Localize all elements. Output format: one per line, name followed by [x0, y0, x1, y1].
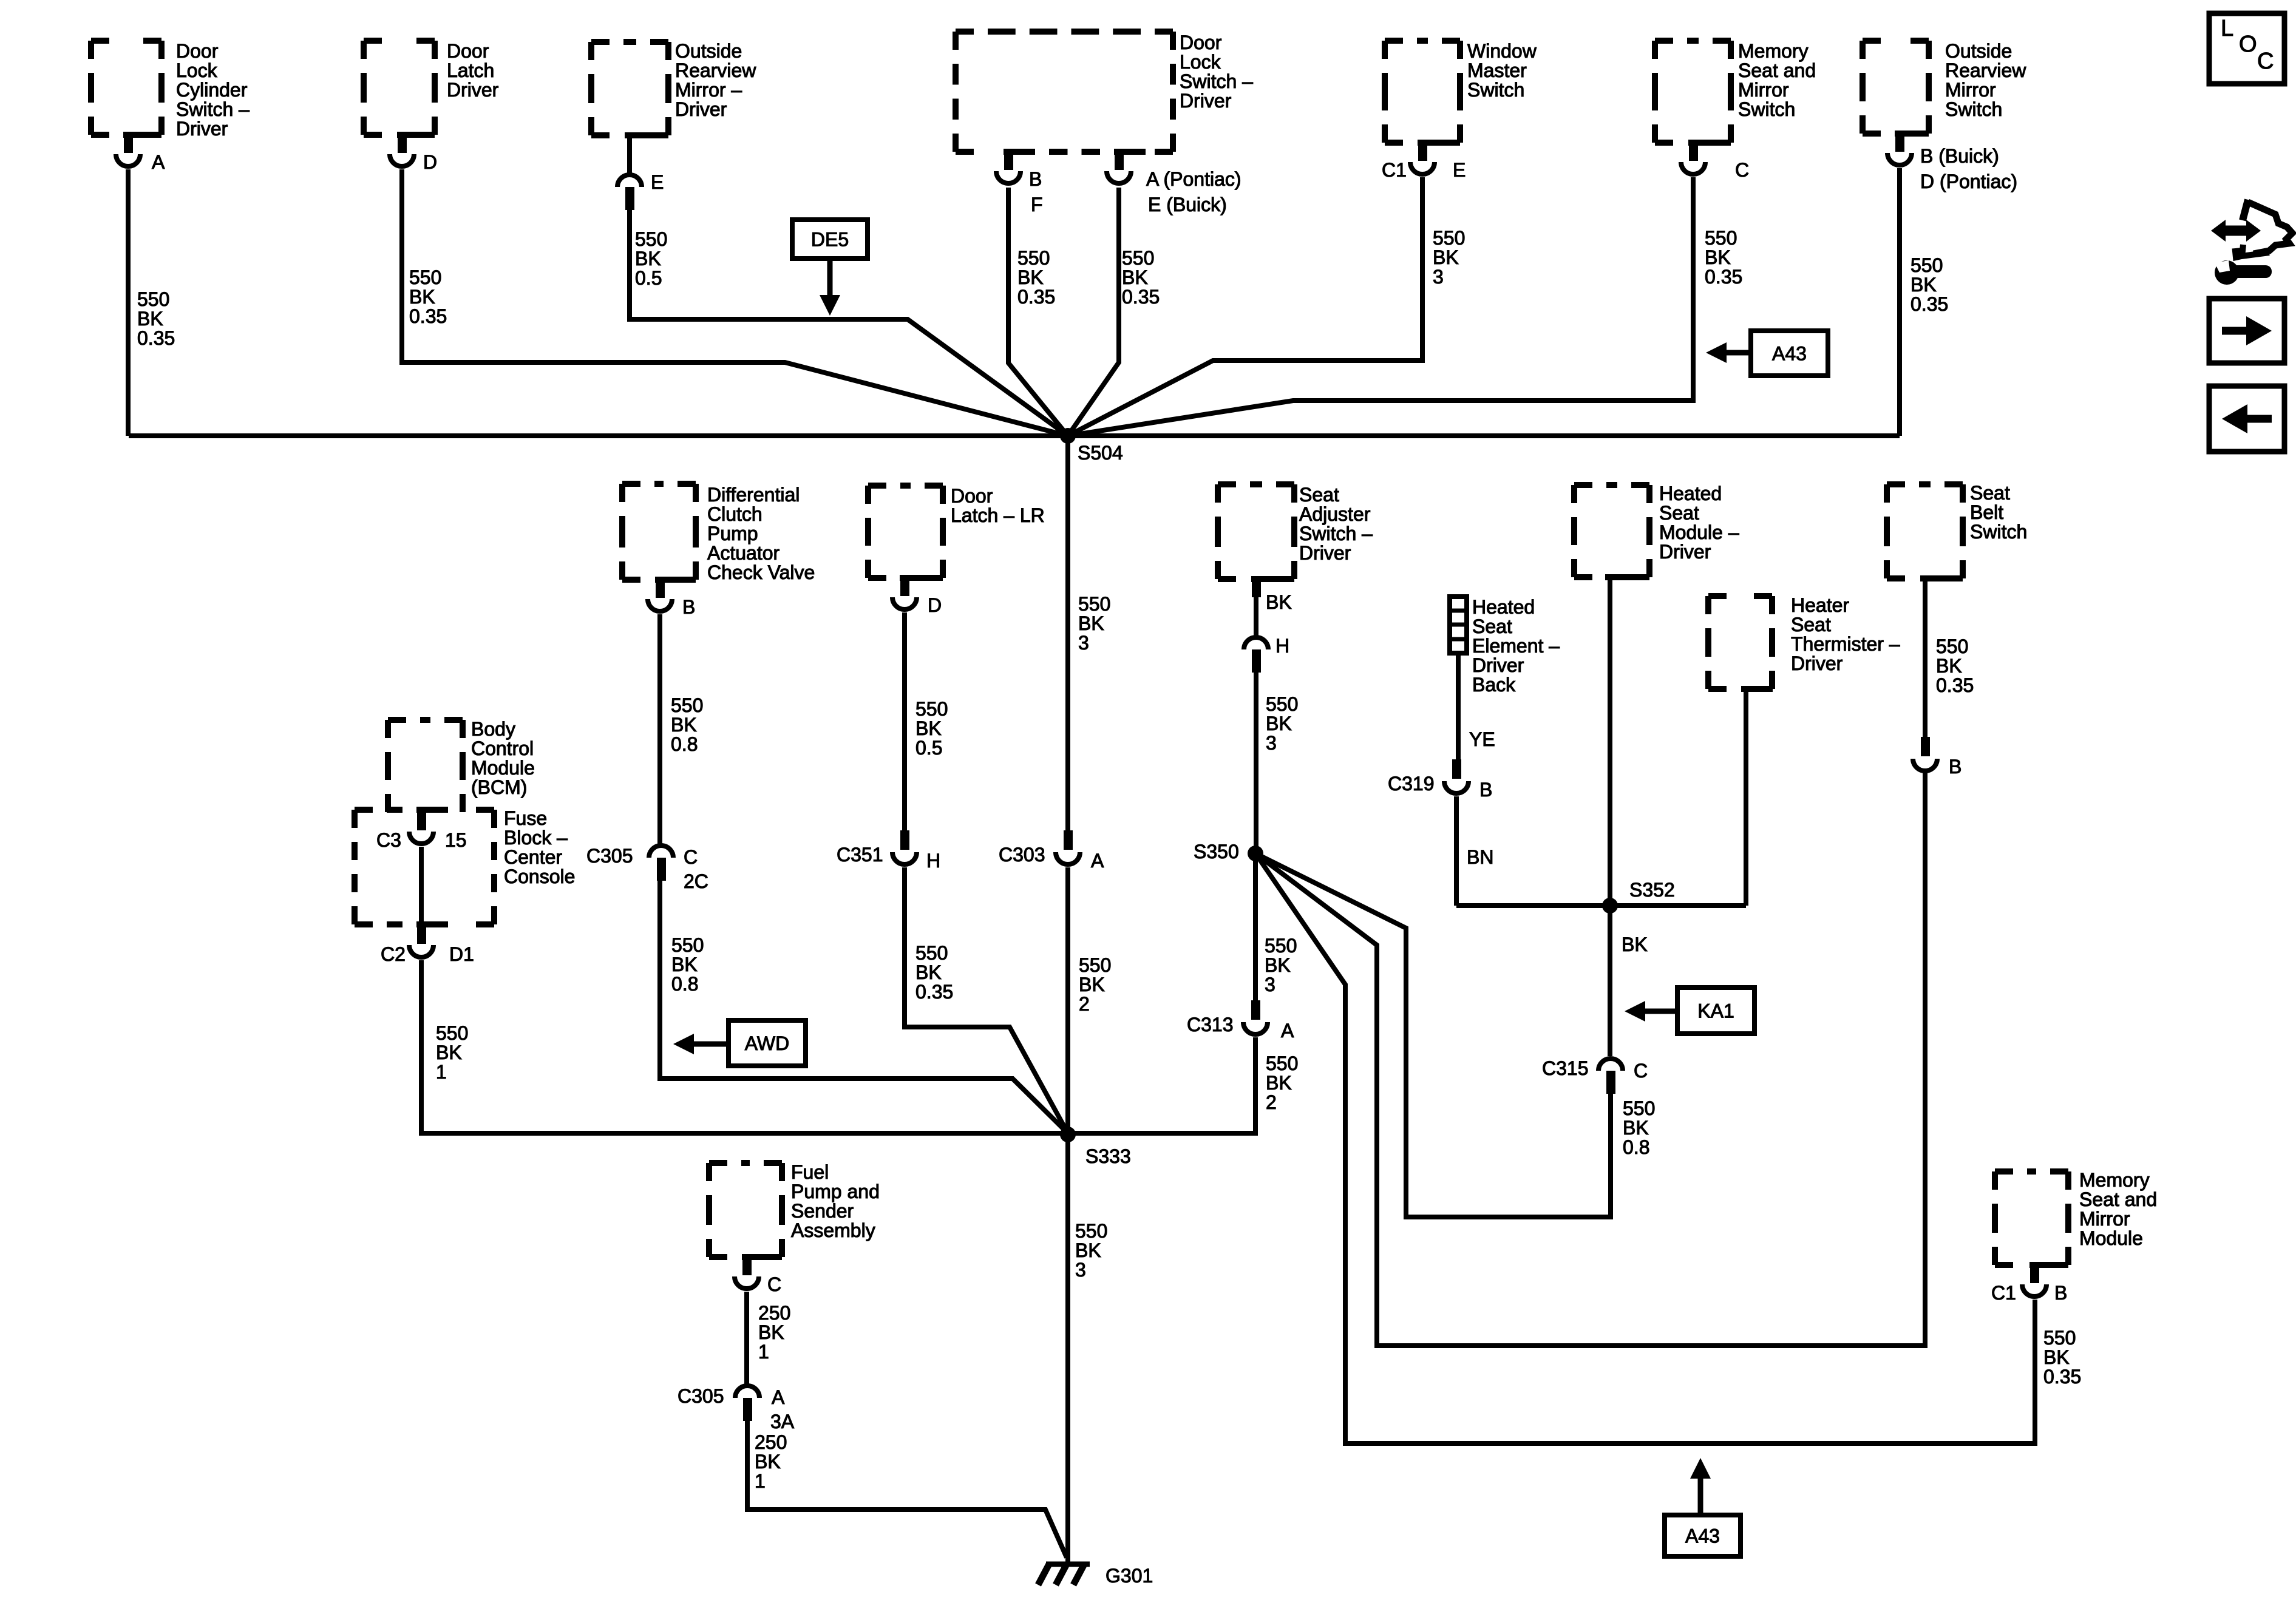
wire: S352 to C315 — [1608, 906, 1612, 1056]
svg-text:C: C — [2257, 49, 2274, 74]
svg-text:1: 1 — [436, 1061, 447, 1083]
wire: door latch LR D to C351 — [902, 612, 907, 830]
svg-text:Outside: Outside — [1945, 40, 2012, 62]
svg-text:550: 550 — [671, 934, 704, 956]
svg-text:Driver: Driver — [675, 98, 727, 120]
svg-text:Outside: Outside — [675, 40, 742, 62]
svg-text:E (Buick): E (Buick) — [1148, 194, 1227, 215]
svg-text:A: A — [1091, 850, 1104, 872]
svg-text:3: 3 — [1075, 1259, 1086, 1281]
svg-text:A: A — [152, 151, 165, 173]
component box: Heated Seat Module - Driver — [1574, 485, 1649, 577]
junction S333 — [1060, 1127, 1076, 1142]
svg-text:Driver: Driver — [1791, 653, 1843, 674]
svg-text:2: 2 — [1266, 1091, 1277, 1113]
svg-text:BK: BK — [671, 954, 698, 975]
svg-text:D: D — [928, 594, 942, 616]
wire: seat adjuster to H connector — [1254, 597, 1258, 636]
connector B inline seat belt switch — [1921, 737, 1930, 756]
svg-text:15: 15 — [445, 829, 467, 851]
wire: diff clutch B to C305 — [657, 614, 662, 844]
svg-text:Assembly: Assembly — [791, 1219, 875, 1241]
svg-text:Lock: Lock — [176, 59, 218, 81]
svg-text:C: C — [1735, 159, 1749, 181]
svg-text:3: 3 — [1266, 732, 1277, 754]
svg-text:BK: BK — [1433, 246, 1459, 268]
connector C303 A inline — [1064, 830, 1073, 850]
component box: Window Master Switch — [1385, 41, 1460, 143]
component box: Fuse Block - Center Console — [355, 810, 494, 924]
svg-text:3: 3 — [1078, 632, 1089, 654]
reference tag A43 (top) — [1751, 331, 1828, 376]
left arrow legend box — [2209, 386, 2284, 452]
connector C3 15 BCM to fuse block — [417, 811, 426, 830]
svg-text:YE: YE — [1469, 728, 1495, 750]
svg-text:Driver: Driver — [176, 118, 228, 140]
svg-text:3: 3 — [1433, 266, 1444, 288]
svg-text:550: 550 — [436, 1022, 468, 1044]
svg-text:Mirror: Mirror — [2079, 1208, 2130, 1230]
wire: outside rearview mirror switch to bus — [1897, 168, 1902, 436]
svg-text:Pump and: Pump and — [791, 1181, 880, 1202]
svg-text:Rearview: Rearview — [1945, 59, 2026, 81]
svg-text:C: C — [684, 846, 698, 868]
svg-text:Mirror: Mirror — [1945, 79, 1996, 101]
wire: thermister to S352 — [1744, 689, 1748, 906]
svg-text:Switch: Switch — [1467, 79, 1524, 101]
svg-text:Door: Door — [1180, 32, 1222, 53]
svg-text:550: 550 — [137, 288, 169, 310]
svg-text:BK: BK — [1936, 655, 1962, 677]
svg-text:Master: Master — [1467, 59, 1527, 81]
svg-text:BK: BK — [1623, 1117, 1649, 1139]
wire: heated seat element to C319 — [1456, 653, 1461, 762]
svg-text:550: 550 — [635, 228, 667, 250]
wire: door lock cylinder switch A to bus — [126, 169, 131, 436]
svg-text:A: A — [772, 1386, 785, 1408]
svg-text:S504: S504 — [1078, 442, 1123, 464]
component box: Fuel Pump and Sender Assembly — [709, 1163, 782, 1257]
component box: Outside Rearview Mirror Switch — [1863, 41, 1929, 134]
svg-text:550: 550 — [1079, 954, 1111, 976]
svg-text:Check Valve: Check Valve — [707, 561, 815, 583]
svg-text:0.8: 0.8 — [1623, 1136, 1649, 1158]
svg-text:Door: Door — [951, 485, 993, 507]
svg-text:AWD: AWD — [745, 1032, 789, 1054]
svg-text:S350: S350 — [1194, 841, 1239, 863]
connector C305 2C inline — [649, 846, 673, 858]
svg-text:0.8: 0.8 — [671, 733, 698, 755]
svg-text:O: O — [2239, 32, 2257, 57]
svg-text:BN: BN — [1467, 846, 1493, 868]
svg-text:C319: C319 — [1388, 773, 1435, 795]
svg-text:D (Pontiac): D (Pontiac) — [1920, 171, 2017, 192]
heating element: Heated Seat Element - Driver Back — [1450, 597, 1467, 653]
svg-text:BK: BK — [1911, 274, 1937, 296]
svg-text:0.35: 0.35 — [1705, 266, 1742, 288]
svg-text:B: B — [682, 596, 695, 618]
svg-text:Memory: Memory — [1738, 40, 1809, 62]
svg-text:BK: BK — [1079, 974, 1105, 995]
svg-text:H: H — [926, 850, 940, 872]
svg-text:0.5: 0.5 — [915, 737, 942, 759]
wire: memory seat mirror switch C to S504 — [1068, 177, 1693, 436]
svg-text:Switch –: Switch – — [176, 98, 250, 120]
svg-text:550: 550 — [2043, 1327, 2076, 1349]
svg-text:C: C — [1634, 1060, 1648, 1082]
svg-text:Window: Window — [1467, 40, 1537, 62]
svg-text:Sender: Sender — [791, 1200, 854, 1222]
svg-text:E: E — [651, 171, 664, 193]
connector C351 H inline — [900, 830, 909, 850]
svg-text:Seat: Seat — [1659, 502, 1699, 524]
svg-text:550: 550 — [1266, 693, 1298, 715]
svg-text:C1: C1 — [1991, 1282, 2016, 1304]
svg-text:550: 550 — [1705, 227, 1737, 249]
wire: main ground bus horizontal — [129, 433, 1900, 438]
svg-text:C305: C305 — [678, 1385, 724, 1407]
svg-text:550: 550 — [1078, 593, 1110, 615]
svg-text:Element –: Element – — [1472, 635, 1560, 657]
svg-text:Switch –: Switch – — [1299, 523, 1373, 544]
pin C of memory seat and mirror switch — [1689, 143, 1698, 161]
wire: door latch driver D to S504 — [402, 169, 1068, 436]
svg-text:0.8: 0.8 — [671, 973, 698, 995]
svg-text:Switch: Switch — [1738, 98, 1795, 120]
component box: Door Latch Driver — [364, 41, 435, 135]
svg-text:Driver: Driver — [447, 79, 499, 101]
pin D of door latch driver — [398, 135, 407, 153]
arrow from DE5 — [827, 259, 833, 301]
svg-text:C313: C313 — [1187, 1014, 1234, 1036]
svg-text:Module –: Module – — [1659, 521, 1739, 543]
svg-text:Mirror: Mirror — [1738, 79, 1789, 101]
pin B of door lock switch — [1004, 152, 1013, 170]
svg-text:BK: BK — [2043, 1346, 2070, 1368]
svg-text:C1: C1 — [1382, 159, 1407, 181]
svg-text:2: 2 — [1079, 993, 1090, 1015]
svg-text:C351: C351 — [837, 844, 883, 866]
wire: S333 to C313 branch — [1068, 1037, 1255, 1133]
connector C2 D1 fuse block — [417, 924, 426, 944]
svg-text:Seat: Seat — [1472, 615, 1512, 637]
svg-text:Heated: Heated — [1659, 483, 1722, 504]
svg-text:Seat: Seat — [1791, 614, 1831, 636]
svg-text:BK: BK — [1017, 266, 1044, 288]
svg-text:Driver: Driver — [1299, 542, 1351, 564]
svg-text:3: 3 — [1265, 974, 1275, 995]
svg-text:BK: BK — [1622, 934, 1648, 955]
pin B of diff clutch pump valve — [656, 580, 665, 598]
svg-text:Driver: Driver — [1472, 654, 1524, 676]
svg-text:Back: Back — [1472, 674, 1516, 696]
svg-text:550: 550 — [1623, 1097, 1655, 1119]
reference tag AWD — [729, 1020, 806, 1066]
wire: door lock switch A to S504 — [1068, 188, 1119, 436]
arrow from A43 top — [1720, 350, 1751, 356]
svg-text:Thermister –: Thermister – — [1791, 633, 1900, 655]
component box: Door Latch - LR — [868, 486, 943, 578]
wrench icon — [2215, 260, 2239, 285]
svg-text:Console: Console — [504, 866, 575, 887]
svg-text:A43: A43 — [1772, 343, 1807, 365]
pin D of door latch LR — [900, 578, 909, 596]
right arrow legend box — [2209, 299, 2284, 363]
svg-text:0.35: 0.35 — [915, 981, 953, 1003]
svg-text:Latch: Latch — [447, 59, 494, 81]
wire: H connector to S350 — [1254, 673, 1258, 853]
svg-text:Actuator: Actuator — [707, 542, 780, 564]
wire: heated seat module to S352 — [1608, 577, 1612, 906]
svg-text:Control: Control — [471, 737, 534, 759]
pin C of fuel pump — [742, 1257, 752, 1275]
svg-text:BK: BK — [1266, 1072, 1292, 1094]
svg-text:BK: BK — [635, 248, 661, 269]
svg-text:Memory: Memory — [2079, 1169, 2150, 1191]
component box: Door Lock Switch - Driver — [956, 32, 1173, 152]
svg-text:Belt: Belt — [1970, 501, 2003, 523]
component box: Seat Adjuster Switch - Driver — [1218, 484, 1294, 579]
svg-text:BK: BK — [1266, 713, 1292, 734]
wire: BCM C3 to fuse block — [419, 847, 424, 924]
svg-text:550: 550 — [1122, 247, 1154, 269]
vehicle icon with double arrow — [2222, 226, 2250, 236]
svg-text:S333: S333 — [1085, 1145, 1131, 1167]
svg-text:BK: BK — [1266, 591, 1292, 613]
svg-text:0.35: 0.35 — [1122, 286, 1160, 308]
svg-text:(BCM): (BCM) — [471, 776, 527, 798]
svg-text:Rearview: Rearview — [675, 59, 756, 81]
wire: S350 to memory module branch — [1255, 853, 2035, 1443]
svg-text:Adjuster: Adjuster — [1299, 503, 1371, 525]
svg-text:B: B — [1949, 756, 1961, 778]
pin E of window master switch — [1418, 143, 1427, 161]
svg-text:250: 250 — [755, 1431, 787, 1453]
pin B D of outside rearview mirror switch — [1895, 134, 1904, 152]
wire: mirror driver E upper segment — [627, 135, 632, 174]
reference tag A43 (bottom) — [1665, 1515, 1741, 1556]
svg-text:BK: BK — [758, 1321, 784, 1343]
svg-text:A: A — [1281, 1020, 1294, 1042]
pin A of door lock switch — [1115, 152, 1124, 170]
svg-text:Cylinder: Cylinder — [176, 79, 248, 101]
arrow from KA1 — [1639, 1009, 1677, 1014]
svg-text:Fuel: Fuel — [791, 1161, 829, 1183]
wire: seat belt switch down — [1923, 578, 1927, 737]
svg-text:Latch – LR: Latch – LR — [951, 504, 1045, 526]
svg-text:0.5: 0.5 — [635, 267, 662, 289]
svg-text:0.35: 0.35 — [1936, 674, 1974, 696]
component box: Body Control Module (BCM) — [388, 720, 463, 812]
svg-text:0.35: 0.35 — [1911, 293, 1948, 315]
svg-text:BK: BK — [915, 961, 942, 983]
svg-text:C2: C2 — [381, 943, 406, 965]
svg-text:Module: Module — [471, 757, 535, 779]
connector E inline mirror driver — [617, 175, 642, 187]
svg-text:F: F — [1031, 194, 1043, 215]
svg-text:1: 1 — [758, 1341, 769, 1363]
svg-text:L: L — [2221, 16, 2233, 41]
svg-text:Heated: Heated — [1472, 596, 1535, 618]
svg-text:Seat and: Seat and — [1738, 59, 1816, 81]
svg-text:550: 550 — [1075, 1220, 1107, 1242]
svg-text:Seat: Seat — [1970, 482, 2010, 504]
svg-text:BK: BK — [409, 286, 435, 308]
svg-text:C: C — [767, 1273, 781, 1295]
svg-text:C3: C3 — [376, 829, 401, 851]
pin C1 B of memory seat mirror module — [2030, 1265, 2039, 1283]
svg-text:BK: BK — [755, 1451, 781, 1473]
svg-text:550: 550 — [1265, 935, 1297, 957]
svg-text:550: 550 — [915, 698, 948, 720]
svg-text:550: 550 — [1911, 254, 1943, 276]
connector C315 C inline — [1598, 1059, 1623, 1071]
svg-text:G301: G301 — [1106, 1565, 1153, 1587]
component box: Memory Seat and Mirror Switch — [1655, 41, 1731, 143]
component box: Outside Rearview Mirror - Driver — [591, 42, 668, 135]
svg-text:Seat and: Seat and — [2079, 1188, 2157, 1210]
svg-text:250: 250 — [758, 1302, 790, 1324]
wire: S350 to C315 branch — [1255, 853, 1611, 1217]
svg-text:Center: Center — [504, 846, 562, 868]
wire: S350 to seat belt switch branch — [1255, 771, 1925, 1346]
svg-text:Lock: Lock — [1180, 51, 1221, 73]
reference tag KA1 — [1677, 988, 1754, 1034]
svg-text:Heater: Heater — [1791, 594, 1849, 616]
svg-text:BK: BK — [1705, 246, 1731, 268]
svg-text:B: B — [2054, 1282, 2067, 1304]
svg-text:3A: 3A — [770, 1411, 795, 1432]
svg-text:C303: C303 — [999, 844, 1045, 866]
junction S352 — [1602, 898, 1618, 914]
connector C305 A 3A inline — [735, 1386, 759, 1398]
component box: Door Lock Cylinder Switch - Driver — [91, 41, 161, 135]
wire: door lock switch B to S504 — [1008, 188, 1068, 436]
wire: mirror driver E to S504 — [630, 210, 1068, 436]
wire: C351 to S333 — [905, 867, 1068, 1133]
svg-text:Clutch: Clutch — [707, 503, 763, 525]
svg-text:B: B — [1479, 779, 1492, 801]
svg-text:BK: BK — [436, 1042, 462, 1063]
connector H inline seat adjuster — [1244, 637, 1268, 649]
component box: Seat Belt Switch — [1887, 484, 1963, 578]
svg-text:B: B — [1029, 168, 1042, 190]
svg-text:Switch: Switch — [1970, 521, 2027, 543]
svg-text:550: 550 — [1017, 247, 1050, 269]
svg-text:Driver: Driver — [1659, 541, 1711, 563]
svg-text:BK: BK — [137, 308, 163, 330]
svg-text:Block –: Block – — [504, 827, 568, 849]
svg-text:550: 550 — [1936, 636, 1968, 657]
svg-text:550: 550 — [1433, 227, 1465, 249]
svg-text:550: 550 — [409, 266, 441, 288]
svg-text:1: 1 — [755, 1470, 766, 1492]
component box: Memory Seat and Mirror Module — [1995, 1171, 2068, 1265]
svg-text:D: D — [423, 151, 437, 173]
LOC legend box — [2209, 13, 2284, 84]
reference tag DE5 — [792, 220, 868, 259]
ground G301 — [1046, 1562, 1090, 1567]
svg-text:C315: C315 — [1542, 1057, 1589, 1079]
svg-text:Pump: Pump — [707, 523, 758, 544]
arrow from A43 bottom — [1698, 1473, 1703, 1515]
svg-text:DE5: DE5 — [811, 229, 849, 251]
junction S350 — [1248, 846, 1263, 861]
svg-text:0.35: 0.35 — [137, 327, 175, 349]
svg-text:Switch: Switch — [1945, 98, 2002, 120]
svg-text:550: 550 — [671, 694, 703, 716]
svg-text:C305: C305 — [586, 845, 633, 867]
wire: S504 down to C303 — [1065, 436, 1070, 830]
svg-text:Module: Module — [2079, 1227, 2143, 1249]
svg-text:BK: BK — [1075, 1239, 1101, 1261]
svg-text:KA1: KA1 — [1697, 1000, 1734, 1022]
pin stub of seat adjuster switch — [1252, 579, 1261, 597]
component box: Heater Seat Thermister - Driver — [1708, 596, 1773, 689]
svg-text:Driver: Driver — [1180, 90, 1232, 112]
connector C313 A inline — [1251, 1000, 1260, 1020]
junction S504 — [1060, 428, 1076, 444]
connector C319 B inline — [1452, 759, 1461, 779]
svg-text:0.35: 0.35 — [409, 305, 447, 327]
svg-text:Differential: Differential — [707, 484, 800, 506]
svg-text:BK: BK — [915, 717, 942, 739]
svg-text:E: E — [1453, 159, 1466, 181]
svg-text:BK: BK — [1078, 612, 1104, 634]
svg-text:Seat: Seat — [1299, 484, 1339, 506]
wire: C305 to S333 — [660, 881, 1068, 1133]
svg-text:2C: 2C — [684, 870, 708, 892]
svg-text:Switch –: Switch – — [1180, 70, 1253, 92]
svg-text:Mirror –: Mirror – — [675, 79, 742, 101]
svg-text:S352: S352 — [1629, 879, 1675, 901]
svg-text:Door: Door — [176, 40, 219, 62]
svg-text:Body: Body — [471, 718, 515, 740]
wire: fuse block C2 D1 to S333 — [421, 960, 1068, 1133]
svg-text:0.35: 0.35 — [1017, 286, 1055, 308]
wire: C319 to S352 — [1454, 796, 1459, 906]
wire: S350 to C313 — [1253, 853, 1258, 1000]
wire: fuel pump to G301 — [747, 1421, 1067, 1558]
wire: fuel pump C to C305 A — [744, 1292, 749, 1384]
wire: S352 horizontal — [1456, 903, 1746, 908]
svg-text:Fuse: Fuse — [504, 807, 547, 829]
svg-text:BK: BK — [1265, 954, 1291, 976]
component box: Differential Clutch Pump Actuator Check Valve — [622, 484, 696, 580]
pin A of door lock cylinder switch — [124, 135, 133, 153]
svg-text:0.35: 0.35 — [2043, 1366, 2081, 1388]
wire: window master switch E to S504 — [1068, 177, 1422, 436]
svg-text:550: 550 — [1266, 1053, 1298, 1074]
svg-text:Door: Door — [447, 40, 489, 62]
svg-text:H: H — [1275, 635, 1289, 657]
svg-text:B (Buick): B (Buick) — [1920, 145, 1999, 167]
svg-text:550: 550 — [915, 942, 948, 964]
svg-text:A (Pontiac): A (Pontiac) — [1146, 168, 1241, 190]
wire: C303 to S333 to G301 — [1065, 867, 1070, 1564]
svg-text:A43: A43 — [1685, 1525, 1720, 1547]
arrow from AWD — [688, 1042, 729, 1047]
svg-text:BK: BK — [671, 714, 697, 736]
svg-text:D1: D1 — [449, 943, 474, 965]
svg-text:BK: BK — [1122, 266, 1148, 288]
